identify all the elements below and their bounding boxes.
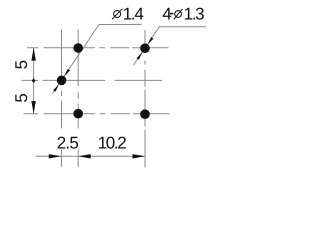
arrowhead down at row3 on vertical dimension	[31, 101, 35, 114]
center line row 3	[23, 113, 169, 115]
center line row 2	[22, 79, 163, 81]
svg-text:1.4: 1.4	[123, 4, 144, 23]
svg-text:10.2: 10.2	[98, 133, 127, 152]
svg-text:5: 5	[12, 60, 31, 69]
svg-text:5: 5	[12, 93, 31, 102]
leader line for 4-dia 1.3	[134, 27, 207, 65]
center line column R	[144, 30, 146, 168]
arrowhead diamond at row2 junction	[32, 78, 36, 83]
arrowhead right at x=61.3 bottom dimension	[49, 154, 62, 158]
svg-text:1.3: 1.3	[184, 4, 205, 23]
leader arrowheads at hole C (dia 1.4)	[64, 69, 70, 76]
diameter symbol of dia 1.4 label	[114, 11, 121, 18]
hole B top-right	[140, 43, 150, 53]
arrowhead left at x=78.2 bottom dimension	[78, 154, 91, 158]
center line row 1	[27, 47, 169, 49]
hole A top-left	[73, 43, 83, 53]
diameter symbol of 4-dia 1.3 label	[175, 11, 182, 18]
leader arrowheads at hole B (4-dia 1.3)	[148, 37, 154, 44]
hole E bottom-right	[140, 109, 150, 119]
center line column L	[77, 30, 79, 168]
hole C middle-left	[57, 76, 67, 86]
hole D bottom-left	[73, 109, 83, 119]
dimension line bottom 2.5/10.2	[36, 155, 146, 157]
leader line for dia 1.4	[53, 25, 142, 94]
hyphen of 4-dia label	[170, 13, 174, 15]
dimension line vertical 5+5	[33, 48, 35, 114]
arrowhead right at x=145 bottom dimension	[133, 154, 146, 158]
arrowhead up at row1 on vertical dimension	[31, 48, 35, 61]
center line column C	[61, 30, 63, 168]
svg-text:2.5: 2.5	[57, 133, 79, 152]
